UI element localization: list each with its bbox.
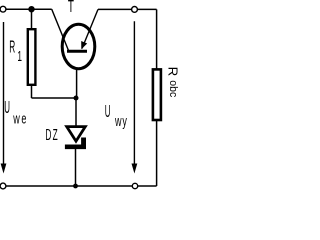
svg-text:Z: Z — [53, 125, 58, 144]
wire: Robc bottom to bottom rail — [156, 120, 158, 186]
svg-text:w: w — [12, 110, 19, 127]
svg-text:U: U — [105, 101, 111, 120]
transistor base bar — [67, 50, 87, 53]
wire: R1 top lead — [31, 9, 33, 29]
svg-text:T: T — [68, 0, 74, 17]
terminal: output top-right — [132, 6, 138, 12]
wire: right vertical (top rail to Robc) — [156, 9, 158, 69]
node: junction dot A (base / R1 / zener) — [74, 96, 79, 101]
svg-text:1: 1 — [17, 48, 22, 65]
svg-text:w: w — [114, 113, 121, 130]
label T — [68, 0, 74, 17]
label Uwe — [4, 97, 26, 127]
terminal: input top-left — [0, 6, 6, 12]
resistor Robc — [153, 69, 161, 120]
zener diode DZ triangle — [67, 127, 86, 142]
resistor R1 — [28, 29, 36, 85]
arrow: Uwe arrowhead — [1, 164, 7, 174]
svg-text:obc: obc — [167, 80, 179, 97]
svg-text:e: e — [21, 110, 26, 127]
wire: R1 bottom lead down — [31, 85, 33, 98]
label Robc — [166, 67, 181, 98]
label Uwy — [105, 101, 128, 129]
zener diode DZ cathode bar with right up-tick — [65, 138, 86, 150]
svg-text:U: U — [4, 97, 10, 116]
transistor Q1 (T) body circle — [62, 24, 95, 68]
svg-text:y: y — [122, 113, 127, 130]
wire: top rail left segment — [3, 8, 52, 10]
transistor emitter lead (right diagonal) — [82, 9, 98, 48]
transistor emitter arrowhead — [81, 41, 87, 49]
arrow: Uwy arrowhead — [132, 164, 138, 174]
label DZ — [45, 125, 57, 144]
wire: node A down to zener anode — [75, 98, 77, 126]
arrow: Uwe voltage arrow line — [3, 22, 5, 166]
arrow: Uwy voltage arrow line — [133, 21, 135, 166]
wire: R1 to node A horizontal — [32, 97, 77, 99]
svg-text:R: R — [166, 67, 181, 77]
node: junction dot bottom rail / zener — [73, 184, 78, 189]
wire: top rail right segment — [98, 8, 157, 10]
svg-text:R: R — [9, 37, 15, 56]
terminal: output bottom-right — [132, 183, 137, 188]
svg-text:D: D — [45, 125, 51, 144]
terminal: input bottom-left — [0, 183, 6, 189]
transistor collector lead (left diagonal) — [52, 9, 69, 50]
label R1 value — [9, 37, 22, 65]
wire: bottom rail — [3, 185, 157, 187]
wire: zener cathode down to bottom rail — [75, 148, 77, 186]
wire: transistor base lead down to node A — [76, 52, 78, 99]
node: junction dot top rail / R1 — [28, 6, 34, 12]
